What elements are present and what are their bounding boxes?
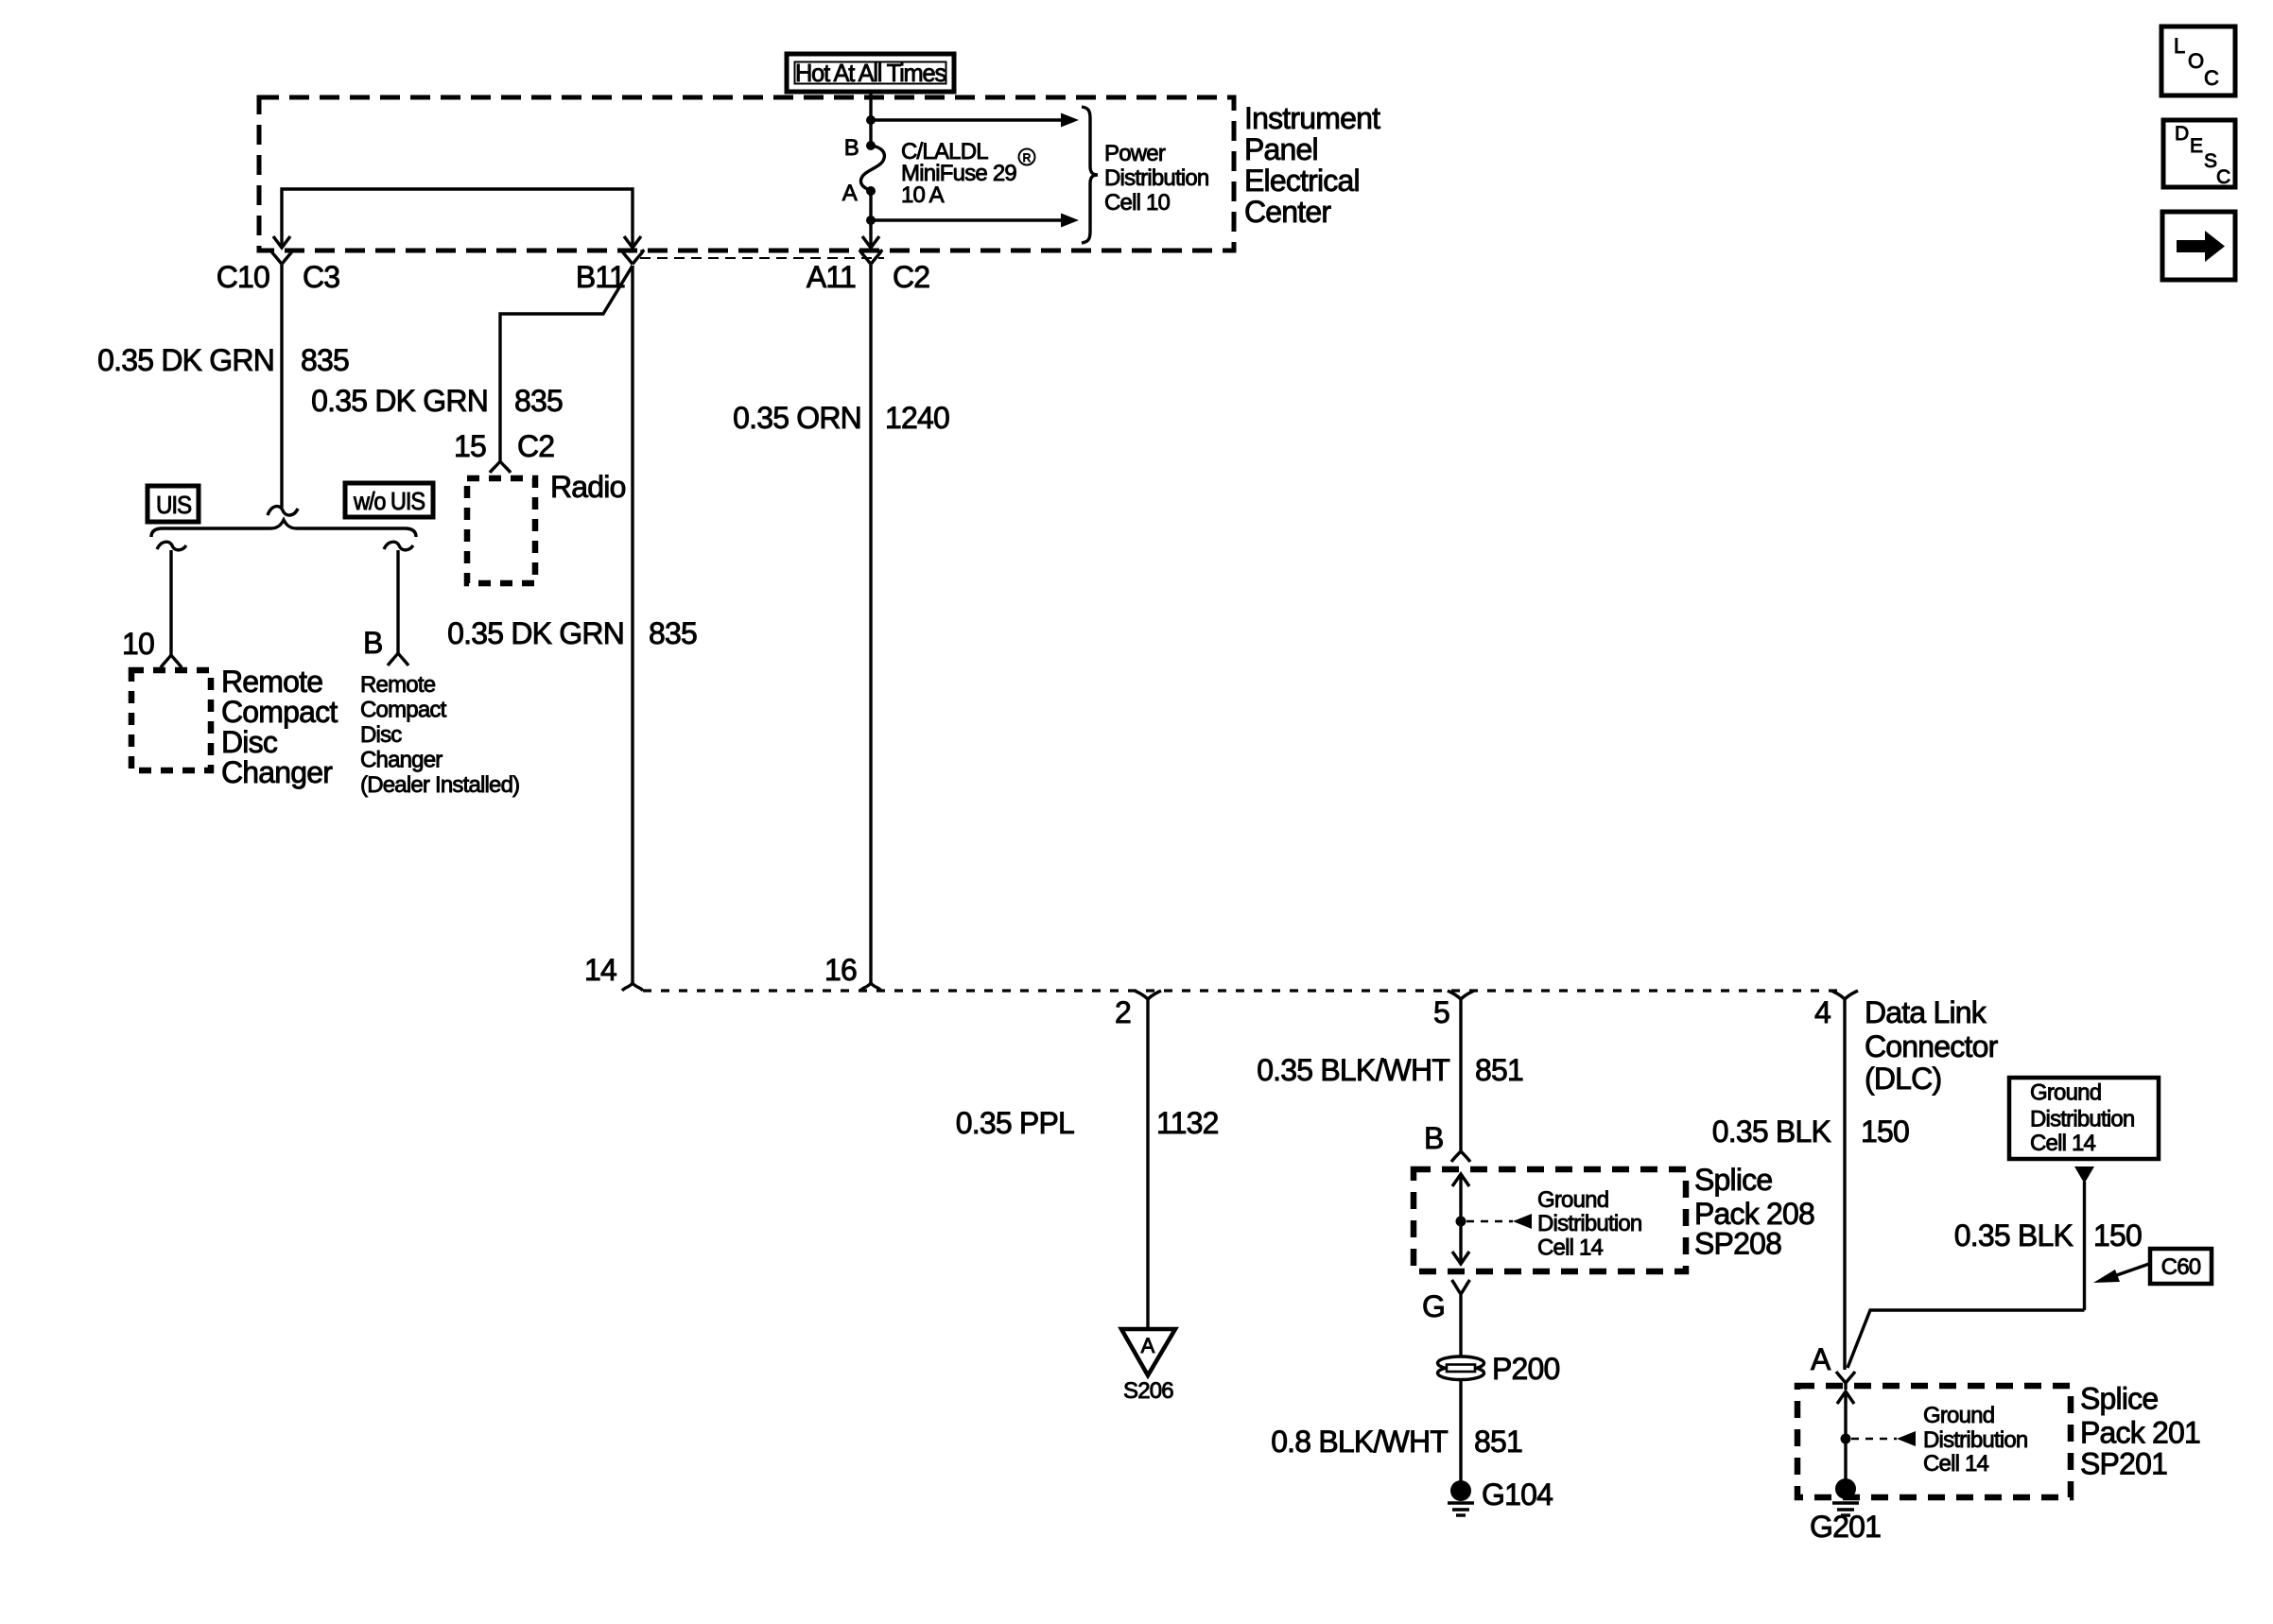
svg-text:C2: C2 <box>893 260 929 294</box>
svg-text:835: 835 <box>649 616 697 650</box>
svg-text:w/o UIS: w/o UIS <box>353 487 425 515</box>
svg-text:Panel: Panel <box>1244 132 1318 166</box>
svg-text:10: 10 <box>122 627 154 661</box>
svg-text:(DLC): (DLC) <box>1865 1062 1941 1096</box>
svg-text:Cell 14: Cell 14 <box>2030 1131 2096 1156</box>
svg-text:G: G <box>1422 1289 1445 1323</box>
svg-text:1132: 1132 <box>1156 1106 1219 1140</box>
svg-text:Distribution: Distribution <box>1537 1211 1641 1236</box>
svg-text:Ground: Ground <box>1537 1187 1608 1213</box>
svg-text:S: S <box>2204 150 2217 172</box>
svg-text:835: 835 <box>514 384 563 418</box>
svg-text:5: 5 <box>1433 995 1449 1029</box>
svg-text:Ground: Ground <box>2030 1080 2101 1106</box>
svg-text:Pack 201: Pack 201 <box>2080 1416 2200 1450</box>
svg-text:B: B <box>844 135 859 161</box>
svg-text:Splice: Splice <box>2080 1382 2158 1416</box>
svg-text:C3: C3 <box>303 260 339 294</box>
svg-text:0.35 PPL: 0.35 PPL <box>956 1106 1074 1140</box>
svg-text:Remote: Remote <box>221 665 322 699</box>
svg-text:A: A <box>842 181 858 206</box>
svg-text:4: 4 <box>1814 995 1831 1029</box>
svg-text:Disc: Disc <box>221 725 278 759</box>
svg-text:(Dealer Installed): (Dealer Installed) <box>360 772 519 798</box>
svg-text:R: R <box>1023 151 1032 164</box>
svg-text:P200: P200 <box>1492 1352 1560 1386</box>
svg-text:S206: S206 <box>1123 1378 1173 1404</box>
svg-text:2: 2 <box>1115 995 1131 1029</box>
svg-text:SP201: SP201 <box>2080 1447 2167 1481</box>
svg-text:Compact: Compact <box>221 695 338 729</box>
svg-text:Compact: Compact <box>360 698 447 723</box>
svg-text:0.35 BLK/WHT: 0.35 BLK/WHT <box>1257 1053 1449 1087</box>
svg-text:15: 15 <box>454 429 486 463</box>
svg-text:835: 835 <box>301 343 349 377</box>
svg-text:UIS: UIS <box>156 491 192 519</box>
svg-text:B: B <box>363 626 383 660</box>
svg-text:B: B <box>1424 1121 1444 1155</box>
svg-text:16: 16 <box>824 953 857 987</box>
svg-text:C: C <box>2204 66 2219 90</box>
svg-text:D: D <box>2175 123 2189 145</box>
svg-text:Center: Center <box>1244 195 1331 229</box>
svg-text:A: A <box>1141 1334 1155 1357</box>
svg-text:0.35 BLK: 0.35 BLK <box>1712 1114 1831 1149</box>
svg-text:Cell 10: Cell 10 <box>1104 190 1171 216</box>
svg-text:Power: Power <box>1104 141 1166 166</box>
svg-text:G104: G104 <box>1482 1477 1553 1512</box>
svg-text:Splice: Splice <box>1694 1163 1772 1197</box>
svg-text:Distribution: Distribution <box>1923 1427 2027 1453</box>
svg-text:Data Link: Data Link <box>1865 995 1987 1029</box>
svg-text:A11: A11 <box>807 260 856 294</box>
svg-text:C: C <box>2216 166 2230 188</box>
svg-text:Ground: Ground <box>1923 1403 1994 1428</box>
svg-text:SP208: SP208 <box>1694 1227 1781 1261</box>
svg-text:C10: C10 <box>217 260 269 294</box>
svg-text:851: 851 <box>1475 1053 1523 1087</box>
svg-text:0.35 BLK: 0.35 BLK <box>1954 1218 2073 1253</box>
svg-text:Cell 14: Cell 14 <box>1923 1451 1989 1477</box>
svg-text:0.8 BLK/WHT: 0.8 BLK/WHT <box>1271 1425 1448 1459</box>
svg-text:851: 851 <box>1474 1425 1522 1459</box>
svg-text:Changer: Changer <box>221 755 333 789</box>
svg-text:0.35 ORN: 0.35 ORN <box>733 401 861 435</box>
svg-text:10 A: 10 A <box>901 182 945 208</box>
svg-text:G201: G201 <box>1810 1510 1881 1544</box>
svg-text:14: 14 <box>584 953 616 987</box>
svg-text:O: O <box>2188 49 2204 73</box>
svg-text:Hot At All Times: Hot At All Times <box>795 59 946 87</box>
svg-text:Distribution: Distribution <box>2030 1107 2134 1132</box>
svg-text:0.35 DK GRN: 0.35 DK GRN <box>97 343 274 377</box>
svg-text:E: E <box>2190 135 2203 157</box>
svg-text:C60: C60 <box>2161 1254 2201 1280</box>
svg-text:150: 150 <box>2093 1218 2142 1253</box>
svg-text:Cell 14: Cell 14 <box>1537 1235 1604 1261</box>
svg-text:0.35 DK GRN: 0.35 DK GRN <box>447 616 624 650</box>
svg-text:0.35 DK GRN: 0.35 DK GRN <box>311 384 488 418</box>
svg-text:C2: C2 <box>517 429 554 463</box>
svg-text:Changer: Changer <box>360 748 442 773</box>
svg-text:A: A <box>1811 1342 1831 1376</box>
svg-text:1240: 1240 <box>885 401 949 435</box>
svg-text:Disc: Disc <box>360 722 402 748</box>
svg-text:150: 150 <box>1861 1114 1909 1149</box>
svg-text:Remote: Remote <box>360 672 436 698</box>
svg-text:Instrument: Instrument <box>1244 101 1380 135</box>
svg-text:Distribution: Distribution <box>1104 165 1208 191</box>
svg-text:L: L <box>2174 34 2185 58</box>
svg-text:Electrical: Electrical <box>1244 164 1360 198</box>
svg-text:Radio: Radio <box>550 470 626 504</box>
svg-text:Connector: Connector <box>1865 1029 1999 1063</box>
